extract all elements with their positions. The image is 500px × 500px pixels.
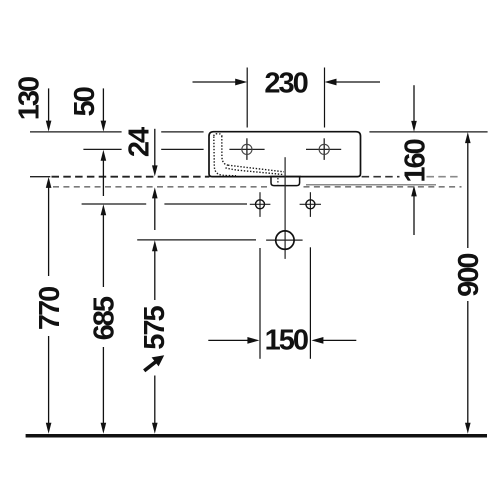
dimension 50 arrow line bbox=[102, 88, 104, 121]
dimension 130 arrow line bbox=[48, 88, 50, 121]
dimension 770 lower shaft bbox=[48, 336, 50, 424]
bowl floor lower hidden line (dotted) bbox=[226, 168, 285, 175]
fixing hole left crosshair horizontal bbox=[229, 148, 264, 150]
svg-text:160: 160 bbox=[399, 139, 431, 182]
extension line: rim-top level left segment 2 bbox=[161, 131, 203, 133]
dimension 50 arrowhead down bbox=[101, 121, 107, 132]
dimension 900 upper arrowhead up bbox=[465, 132, 471, 143]
dimension 230 left arrow line bbox=[193, 81, 237, 83]
dimension 230 left arrowhead bbox=[235, 79, 247, 86]
dimension 575 lower shaft bbox=[154, 376, 156, 425]
dimension 50 lower arrowhead up bbox=[101, 150, 107, 161]
bowl floor upper hidden line (dotted) bbox=[228, 165, 284, 172]
dimension 770 upper arrowhead up bbox=[46, 177, 52, 188]
dimension 150 extension line left bbox=[259, 248, 261, 359]
dashed line L1 left dashes bbox=[52, 176, 210, 178]
basin interior hidden inner wall (dotted) bbox=[222, 136, 228, 165]
drain hidden vertical (dotted) bbox=[277, 178, 279, 184]
dashed line L1 right dashes part 2 gray bbox=[427, 176, 462, 178]
dimension 130 arrowhead down bbox=[46, 121, 52, 132]
extension line: 685-level segment 2 bbox=[164, 203, 247, 205]
dimension 150 right arrowhead bbox=[311, 337, 323, 344]
basin centerline through drain bbox=[284, 157, 286, 259]
svg-text:575: 575 bbox=[139, 306, 171, 350]
basin bottom edge over tab bbox=[270, 176, 302, 178]
dimension 24 arrowhead down bbox=[152, 165, 158, 176]
svg-text:900: 900 bbox=[453, 254, 485, 297]
dimension 770 upper shaft bbox=[48, 187, 50, 276]
extension line: 50-level segment 1 bbox=[83, 148, 121, 150]
extension line: 685-level segment 1 bbox=[82, 203, 147, 205]
dimension 900 upper shaft bbox=[467, 142, 469, 248]
dimension 24 lower arrowhead up bbox=[152, 187, 158, 198]
dimension 575 bent arrowhead bbox=[152, 355, 165, 366]
dimension 575 bent arrow shaft bbox=[144, 361, 156, 371]
dimension 685 upper shaft bbox=[102, 215, 104, 288]
drain tab under basin bbox=[271, 176, 300, 185]
dashed line L1 left solid start bbox=[30, 176, 50, 178]
washbasin body outline bbox=[209, 132, 361, 177]
dimension 24 lower arrow tail bbox=[154, 198, 156, 230]
dashed line L2 gray bbox=[53, 186, 268, 188]
svg-text:50: 50 bbox=[69, 87, 101, 116]
svg-text:685: 685 bbox=[89, 296, 121, 340]
svg-text:770: 770 bbox=[34, 287, 66, 330]
wall hole right circle bbox=[306, 200, 315, 209]
extension line: 50-level segment 2 bbox=[161, 148, 203, 150]
dimension 230 extension line left bbox=[246, 68, 248, 128]
floor line bbox=[26, 434, 487, 438]
dimension 230 right arrow line bbox=[335, 81, 380, 83]
basin interior hidden outer wall (dotted) bbox=[214, 137, 236, 176]
wall hole right crosshair horizontal bbox=[300, 203, 321, 205]
svg-text:130: 130 bbox=[13, 77, 45, 120]
dimension 575 arrowhead down at floor bbox=[152, 423, 158, 434]
dimension 900 arrowhead down at floor bbox=[465, 423, 471, 434]
siphon outlet circle bbox=[276, 231, 294, 249]
dimension 150 left arrowhead bbox=[247, 337, 259, 344]
wall hole left crosshair vertical bbox=[259, 192, 261, 217]
extension line: rim-top level right segment bbox=[369, 131, 487, 133]
dimension 150 right arrow line bbox=[322, 339, 357, 341]
dimension 575 upper shaft bbox=[154, 251, 156, 301]
wall hole right crosshair vertical bbox=[309, 192, 311, 217]
dimension 685 lower shaft bbox=[102, 347, 104, 424]
fixing hole right circle bbox=[319, 144, 329, 154]
fixing hole left circle bbox=[242, 144, 252, 154]
fixing hole left crosshair vertical bbox=[246, 138, 248, 160]
fixing hole right crosshair vertical bbox=[323, 138, 325, 160]
dimension 160 lower arrow tail bbox=[413, 196, 415, 235]
dimension 230 right arrowhead bbox=[325, 79, 337, 86]
wall hole left crosshair horizontal bbox=[250, 203, 271, 205]
extension line: 575-level segment bbox=[137, 239, 256, 241]
siphon outlet circle crosshair horizontal bbox=[266, 239, 303, 241]
extension line: rim-top level left segment 1 bbox=[30, 131, 122, 133]
dimension 575 upper arrowhead up bbox=[152, 240, 158, 251]
gray solid accessory line L3 bbox=[306, 184, 436, 186]
dimension 160 arrowhead down bbox=[411, 121, 417, 132]
svg-text:24: 24 bbox=[123, 127, 155, 157]
fixing hole right crosshair horizontal bbox=[306, 148, 341, 150]
dashed line L2 gray right part bbox=[304, 186, 462, 188]
dimension 50 lower arrow tail bbox=[102, 160, 104, 196]
dimension 230 extension line right bbox=[324, 68, 326, 128]
wall hole left circle bbox=[256, 200, 265, 209]
dimension 160 lower arrowhead up bbox=[411, 185, 417, 196]
dimension 685 arrowhead down at floor bbox=[101, 423, 107, 434]
dimension 150 left arrow line bbox=[208, 339, 248, 341]
dashed line L1 right dashes part 1 bbox=[362, 176, 400, 178]
dimension 685 upper arrowhead up bbox=[101, 204, 107, 215]
dimension 160 upper arrow line bbox=[413, 85, 415, 122]
dimension 770 arrowhead down at floor bbox=[46, 423, 52, 434]
dimension 24 upper line bbox=[154, 129, 156, 167]
basin interior hidden rim arc (dotted) bbox=[214, 134, 222, 136]
dimension 150 extension line right bbox=[309, 247, 311, 358]
svg-text:230: 230 bbox=[264, 68, 307, 100]
dimension 900 lower shaft bbox=[467, 301, 469, 424]
svg-text:150: 150 bbox=[265, 324, 308, 356]
